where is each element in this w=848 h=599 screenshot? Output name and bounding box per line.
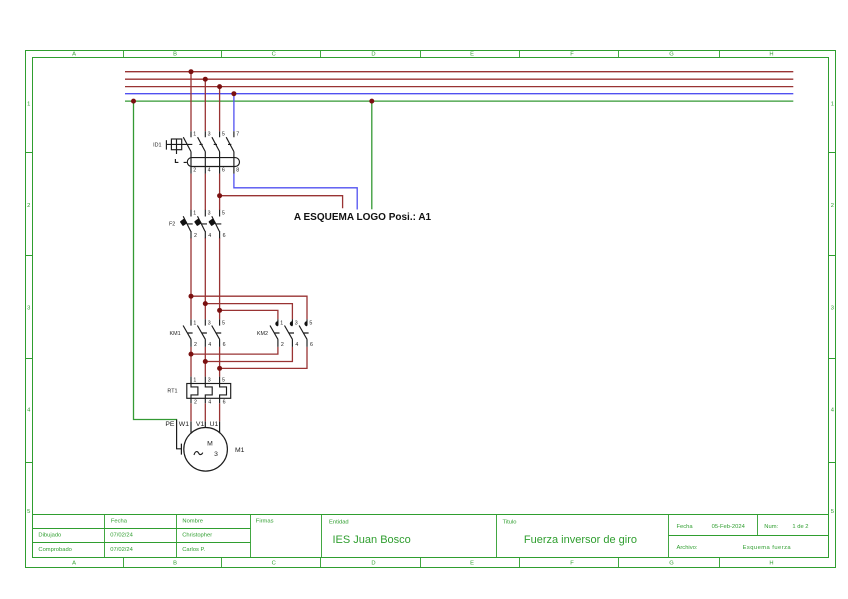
svg-text:2: 2: [831, 203, 834, 209]
node KM bottom 1: [189, 352, 194, 357]
svg-text:D: D: [371, 52, 375, 58]
svg-text:8: 8: [236, 168, 239, 174]
svg-text:H: H: [769, 561, 773, 567]
svg-text:3: 3: [831, 305, 834, 311]
svg-text:C: C: [272, 561, 276, 567]
KM2 pole 3 contact: [299, 319, 307, 347]
svg-text:1: 1: [193, 378, 196, 384]
ID1 toroid stub: [176, 150, 178, 154]
svg-text:5: 5: [831, 509, 834, 515]
thermal relay RT1: [187, 377, 231, 404]
svg-text:W1: W1: [179, 421, 189, 428]
inner border frame: [33, 58, 829, 558]
ID1 pin numbers bottom: [193, 168, 239, 174]
F2 pin numbers bottom: [194, 233, 226, 239]
svg-text:2: 2: [194, 342, 197, 348]
column letters bottom: [72, 561, 774, 567]
svg-text:1 de 2: 1 de 2: [792, 524, 808, 530]
svg-text:05-Feb-2024: 05-Feb-2024: [712, 524, 746, 530]
KM2 terminal mark 3: [304, 321, 307, 326]
bottom band column ticks: [124, 558, 720, 568]
F2 fuse bodies: [180, 218, 216, 226]
svg-text:Entidad: Entidad: [329, 520, 349, 526]
svg-text:2: 2: [193, 168, 196, 174]
title block small labels: [38, 519, 808, 554]
svg-text:3: 3: [208, 320, 211, 326]
ID1 pole 4 contact: [226, 131, 234, 173]
svg-text:E: E: [470, 561, 474, 567]
svg-text:V1: V1: [196, 421, 205, 428]
F2 pole 3 blade: [212, 210, 220, 238]
svg-text:A: A: [72, 561, 76, 567]
svg-text:3: 3: [208, 378, 211, 384]
wire F2 pole1 to KM1 pole1: [190, 238, 192, 319]
svg-text:RT1: RT1: [167, 389, 177, 395]
ID1 pole 3 contact: [212, 131, 220, 173]
svg-text:F2: F2: [169, 222, 175, 228]
rail N: [125, 93, 793, 95]
svg-text:E: E: [470, 52, 474, 58]
svg-text:1: 1: [27, 102, 30, 108]
motor sine squiggle: [194, 452, 203, 455]
svg-text:4: 4: [295, 342, 298, 348]
svg-text:ID1: ID1: [153, 142, 161, 148]
node N tap: [231, 91, 236, 96]
svg-text:Christopher: Christopher: [182, 533, 212, 539]
motor PE lead: [177, 420, 182, 455]
wire node L2 to KM2 pole2: [205, 304, 292, 320]
svg-text:2: 2: [281, 342, 284, 348]
row numbers right: [831, 102, 835, 515]
svg-text:6: 6: [310, 342, 313, 348]
svg-text:5: 5: [309, 320, 312, 326]
svg-text:6: 6: [222, 168, 225, 174]
svg-text:4: 4: [208, 399, 211, 405]
F2 pin numbers top: [193, 211, 225, 217]
svg-text:F: F: [570, 561, 574, 567]
svg-text:07/02/24: 07/02/24: [110, 547, 133, 553]
ID1 left terminal tick: [165, 140, 167, 149]
F2 pole 1 blade: [183, 210, 191, 238]
svg-text:5: 5: [222, 132, 225, 138]
svg-text:3: 3: [27, 305, 30, 311]
svg-text:4: 4: [208, 233, 211, 239]
svg-text:PE: PE: [165, 421, 175, 428]
node KM top 3: [217, 308, 222, 313]
contactor KM1: [183, 319, 221, 347]
svg-text:F: F: [570, 52, 574, 58]
ID1 toroid box: [171, 139, 181, 150]
svg-text:3: 3: [295, 320, 298, 326]
F2 fuse body 2: [194, 218, 202, 226]
ID1 wire through box: [166, 143, 192, 145]
svg-text:4: 4: [208, 168, 211, 174]
KM2 terminal marks: [275, 321, 307, 326]
svg-text:B: B: [173, 561, 177, 567]
svg-text:4: 4: [208, 342, 211, 348]
wire node L1 to KM2 pole3: [191, 296, 307, 319]
node L3 tap: [217, 84, 222, 89]
wire KM1 pole1 out to RT1: [190, 347, 192, 377]
svg-text:07/02/24: 07/02/24: [110, 533, 133, 539]
svg-text:3: 3: [214, 451, 218, 458]
wire PE rail to esquema logo: [371, 101, 373, 209]
svg-text:KM1: KM1: [170, 331, 181, 337]
svg-text:6: 6: [223, 233, 226, 239]
ID1 pole 1 contact: [183, 131, 191, 173]
wire ID1 pole1 to F2: [190, 174, 192, 210]
contactor KM2: [270, 319, 309, 347]
wire ID1 pole3 to F2: [219, 174, 221, 210]
fuse switch F2: [183, 210, 221, 238]
wire L2 tap to ID1 pole 2: [204, 79, 206, 131]
KM2 pole 2 contact: [285, 319, 293, 347]
svg-text:Firmas: Firmas: [256, 519, 274, 525]
wire KM2 pole1 out: [191, 347, 278, 354]
node KM top 2: [203, 301, 208, 306]
svg-text:1: 1: [193, 211, 196, 217]
svg-text:Titulo: Titulo: [503, 520, 517, 526]
right band row ticks: [829, 153, 836, 463]
svg-text:Esquema fuerza: Esquema fuerza: [743, 545, 792, 551]
svg-text:2: 2: [194, 399, 197, 405]
RT1 heater element 1: [191, 377, 198, 404]
ID1 pole 2 contact: [198, 131, 206, 173]
svg-text:1: 1: [193, 132, 196, 138]
RT1 heater element 3: [220, 377, 227, 404]
ID1 linkage stadium: [187, 158, 239, 167]
svg-text:Archivo:: Archivo:: [677, 545, 698, 551]
svg-text:2: 2: [27, 203, 30, 209]
svg-text:3: 3: [208, 132, 211, 138]
rail PE: [125, 100, 793, 102]
ID1 pin numbers top: [193, 132, 239, 138]
row numbers left: [27, 102, 31, 515]
wire F2 pole2 to KM1 pole2: [204, 238, 206, 319]
KM2 terminal mark 1: [275, 321, 278, 326]
node KM bottom 3: [217, 366, 222, 371]
svg-text:G: G: [669, 561, 674, 567]
svg-text:B: B: [173, 52, 177, 58]
node KM top 1: [189, 294, 194, 299]
title block grid lines: [33, 514, 829, 516]
svg-text:A: A: [72, 52, 76, 58]
wire ID1 pole2 to F2: [204, 174, 206, 210]
wire L branch to esquema logo: [220, 196, 343, 209]
wire L1 tap to ID1 pole 1: [190, 72, 192, 132]
wire N tap to ID1 pole 4: [233, 94, 235, 132]
KM2 pole 1 contact: [270, 319, 278, 347]
svg-text:Carlos P.: Carlos P.: [182, 547, 205, 553]
wire F2 pole3 to KM1 pole3: [219, 238, 221, 319]
svg-text:6: 6: [223, 342, 226, 348]
column letters top: [72, 52, 774, 58]
svg-text:Fecha: Fecha: [677, 524, 694, 530]
svg-text:U1: U1: [210, 421, 219, 428]
svg-text:6: 6: [223, 399, 226, 405]
F2 blade dashes: [187, 223, 221, 225]
svg-text:5: 5: [222, 378, 225, 384]
KM2 terminal mark 2: [290, 321, 293, 326]
KM1 pole 3 contact: [212, 319, 220, 347]
wire KM2 pole3 out: [220, 347, 307, 369]
left band row ticks: [26, 153, 33, 463]
node KM bottom 2: [203, 359, 208, 364]
KM1 pin numbers top: [193, 320, 225, 326]
node L1 tap: [189, 69, 194, 74]
KM1 pole 2 contact: [197, 319, 205, 347]
node PE esquema tap: [369, 99, 374, 104]
svg-text:3: 3: [208, 211, 211, 217]
svg-text:M1: M1: [235, 447, 245, 454]
svg-text:7: 7: [236, 132, 239, 138]
svg-text:IES Juan Bosco: IES Juan Bosco: [333, 534, 411, 546]
wire node L3 to KM2 pole1: [220, 310, 278, 319]
node L3 esquema branch: [217, 193, 222, 198]
RT1 heater element 2: [205, 377, 212, 404]
TITLE BLOCK: [33, 515, 829, 558]
svg-text:C: C: [272, 52, 276, 58]
F2 fuse body 1: [180, 218, 188, 226]
svg-text:5: 5: [27, 509, 30, 515]
WIRES: [134, 72, 372, 422]
motor M1: [177, 420, 228, 472]
svg-text:1: 1: [831, 102, 834, 108]
ID1 dashed trip link: [175, 159, 186, 162]
F2 fuse body 3: [208, 218, 216, 226]
KM2 blade dashes: [274, 332, 308, 334]
svg-text:2: 2: [194, 233, 197, 239]
RT1 body box: [187, 384, 231, 399]
motor terminal V1: [204, 421, 206, 427]
svg-text:Num:: Num:: [764, 524, 778, 530]
wire L3 tap to ID1 pole 3: [219, 87, 221, 132]
svg-text:Comprobado: Comprobado: [38, 547, 72, 553]
rail L2: [125, 78, 793, 80]
motor terminal labels: [165, 421, 218, 428]
svg-text:Dibujado: Dibujado: [38, 533, 61, 539]
RT1 pin numbers top: [193, 378, 225, 384]
KM1 blade dashes: [187, 332, 221, 334]
node PE tap: [131, 99, 136, 104]
svg-text:1: 1: [193, 320, 196, 326]
svg-text:A ESQUEMA LOGO Posi.: A1: A ESQUEMA LOGO Posi.: A1: [294, 212, 432, 223]
wire KM2 pole2 out: [205, 347, 292, 362]
motor terminal W1: [190, 421, 192, 433]
rail L3: [125, 86, 793, 88]
KM2 pin numbers top: [280, 320, 312, 326]
wire RT1 pole3 to motor U1: [219, 403, 221, 421]
breaker ID1: [166, 131, 239, 173]
svg-text:1: 1: [280, 320, 283, 326]
F2 pole 2 blade: [198, 210, 206, 238]
svg-text:5: 5: [222, 320, 225, 326]
top band column ticks: [124, 51, 720, 58]
wire PE rail to motor: [134, 101, 178, 419]
node L2 tap: [203, 77, 208, 82]
wire RT1 pole1 to motor W1: [190, 403, 192, 421]
wire RT1 pole2 to motor V1: [204, 403, 206, 421]
svg-text:Nombre: Nombre: [182, 519, 203, 525]
wire KM1 pole2 out to RT1: [204, 347, 206, 377]
motor body circle: [184, 428, 228, 472]
JUNCTION DOTS: [131, 69, 374, 371]
svg-text:M: M: [207, 440, 213, 447]
KM1 pole 1 contact: [183, 319, 191, 347]
ID1 blade dashes: [199, 143, 231, 145]
svg-text:D: D: [371, 561, 375, 567]
POWER RAILS: [125, 72, 793, 101]
svg-text:KM2: KM2: [257, 331, 268, 337]
svg-text:G: G: [669, 52, 674, 58]
wire N to esquema logo: [234, 174, 357, 210]
svg-text:H: H: [769, 52, 773, 58]
svg-text:5: 5: [222, 211, 225, 217]
svg-text:Fuerza inversor de giro: Fuerza inversor de giro: [524, 534, 637, 546]
svg-text:Fecha: Fecha: [111, 519, 128, 525]
wire KM1 pole3 out to RT1: [219, 347, 221, 377]
motor terminal U1: [219, 421, 221, 433]
rail L1: [125, 71, 793, 73]
KM1 pin numbers bottom: [194, 342, 226, 348]
KM2 pin numbers bottom: [281, 342, 313, 348]
RT1 pin numbers bottom: [194, 399, 226, 405]
